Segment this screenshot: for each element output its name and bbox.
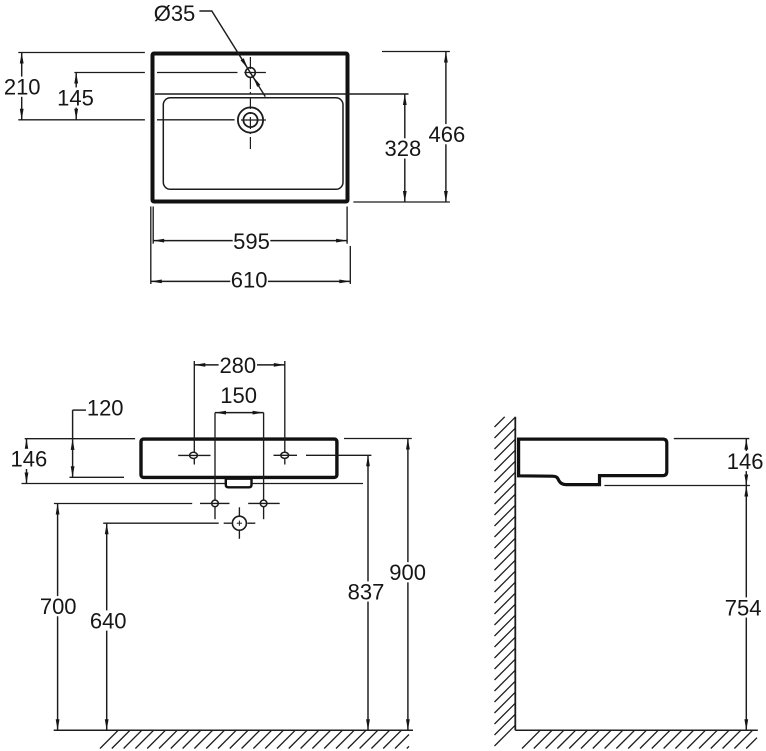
dimension text 328 (384, 138, 422, 158)
extension line for 837 (306, 454, 371, 456)
line C: long horizontal reference line under body (left segment) (22, 483, 226, 485)
leader line of Ø35 label (199, 11, 265, 97)
dimension 146 side: dimension line, arrows, text (745, 439, 747, 486)
right lower hole tick (248, 502, 280, 504)
side view floor line (515, 729, 758, 731)
faucet centreline extension inside rim (157, 72, 238, 74)
top view: outer rim of washbasin (610x466) (153, 54, 348, 202)
extension line: bottom of body (short) (70, 476, 125, 478)
front view: washbasin body (141, 439, 337, 477)
dimension 146: dimension line, arrows, text (26, 439, 28, 484)
right upper hole tick (274, 454, 298, 456)
svg-text:754: 754 (725, 595, 762, 620)
dimension 210: dimension line and arrows (21, 53, 23, 120)
siphon outlet circle (232, 516, 246, 530)
svg-text:120: 120 (87, 395, 124, 420)
drain centreline extension inside rim (157, 119, 235, 121)
drain hole outer circle (238, 107, 263, 132)
dimension 900: extension line at top of body (344, 438, 412, 440)
side view floor hatching (522, 730, 757, 748)
svg-text:610: 610 (231, 267, 268, 292)
svg-text:210: 210 (4, 75, 41, 100)
dimension text 150 (220, 385, 258, 405)
svg-text:280: 280 (219, 353, 256, 378)
line C right segment (skips drain boss) (252, 483, 364, 485)
body bottom edge redrawn over boss top (225, 477, 252, 480)
dimension 595: extension lines (152, 207, 154, 244)
drain hole inner circle (243, 113, 257, 127)
svg-text:328: 328 (385, 136, 422, 161)
siphon tick right (247, 522, 255, 524)
siphon centre dash v (238, 521, 240, 526)
dimension text 640 (89, 610, 127, 630)
front view floor hatching (100, 730, 409, 748)
dimension 210: extension lines (18, 52, 145, 54)
dimension 280: dimension line, arrows, text (194, 364, 218, 366)
dimension 595: dimension line and arrows (153, 240, 347, 242)
wall hatching (495, 417, 516, 746)
dimension text 595 (233, 231, 271, 251)
faucet hole horizontal tick (244, 72, 266, 74)
front view floor line (54, 729, 413, 731)
svg-text:837: 837 (348, 579, 385, 604)
svg-text:Ø35: Ø35 (154, 1, 196, 26)
svg-text:595: 595 (233, 229, 270, 254)
dimension text 466 (428, 124, 466, 144)
svg-text:900: 900 (389, 560, 426, 585)
lower fixing hole right (260, 500, 267, 507)
dimension 837: dimension line, arrows, text (367, 455, 369, 730)
label Ø35 (156, 3, 194, 23)
dimension text 146 side (726, 451, 764, 471)
dimension 640: dimension line, arrows, text (106, 523, 108, 730)
dimension text 146 front (10, 449, 48, 469)
dimension text 280 (219, 355, 257, 375)
dimension 145: extension line (74, 72, 144, 74)
dimension 150: extension lines down to lower holes (214, 413, 216, 520)
dimension text 754 (724, 597, 762, 617)
dimension 610: dimension line and arrows (151, 280, 350, 282)
dimension 754: dimension line, arrows, text (745, 486, 747, 731)
wall line (514, 417, 516, 730)
svg-text:640: 640 (90, 608, 127, 633)
drain hole horizontal tick (241, 119, 266, 121)
upper fixing hole left (190, 452, 198, 458)
siphon centre dash h (237, 522, 242, 524)
lower fixing hole left (212, 500, 219, 507)
siphon tick top (238, 507, 240, 516)
left lower hole tick (200, 502, 230, 504)
svg-text:145: 145 (57, 85, 94, 110)
svg-text:146: 146 (727, 449, 764, 474)
vertical centreline through holes (249, 57, 251, 151)
svg-text:466: 466 (429, 122, 466, 147)
dimension text 610 (230, 269, 268, 289)
siphon tick left (224, 522, 232, 524)
bottom extension line for 328/466 (353, 201, 450, 203)
dimension 700: dimension line, arrows, text (57, 504, 59, 731)
svg-text:146: 146 (11, 447, 48, 472)
dimension text 210 (3, 77, 41, 97)
dimension 640: reference line to siphon (103, 522, 219, 524)
dimension 146 side: extension lines (674, 438, 750, 440)
dimension 610: extension lines (150, 207, 152, 285)
inner basin bowl (163, 98, 343, 190)
dimension 280: extension lines through body to upper fixing holes (193, 361, 195, 465)
faucet hole Ø35 (246, 68, 256, 78)
left upper hole tick (178, 454, 210, 456)
dimension text 120 (86, 398, 124, 418)
dimension text 900 (389, 562, 427, 582)
siphon tick bottom (238, 530, 240, 539)
dimension 466: extension, dimension line and arrows (382, 51, 450, 53)
svg-text:150: 150 (220, 383, 257, 408)
svg-text:700: 700 (40, 594, 77, 619)
dimension 120: leader bracket (73, 409, 86, 411)
back ledge line / extension for 328 (155, 93, 409, 95)
upper fixing hole right (281, 452, 289, 458)
dimension 900: dimension line, arrows, text (407, 439, 409, 731)
dimension 700: reference line to left lower hole (54, 503, 192, 505)
side view: washbasin profile (519, 439, 667, 485)
dimension text 145 (57, 87, 95, 107)
extension line: top of body (left) (25, 438, 135, 440)
drain boss under body (226, 479, 252, 488)
dimension text 837 (347, 581, 385, 601)
dimension text 700 (39, 596, 77, 616)
dimension 150: dimension line, arrows, text (215, 412, 264, 414)
dimension 145: dimension line and arrows (75, 73, 77, 120)
